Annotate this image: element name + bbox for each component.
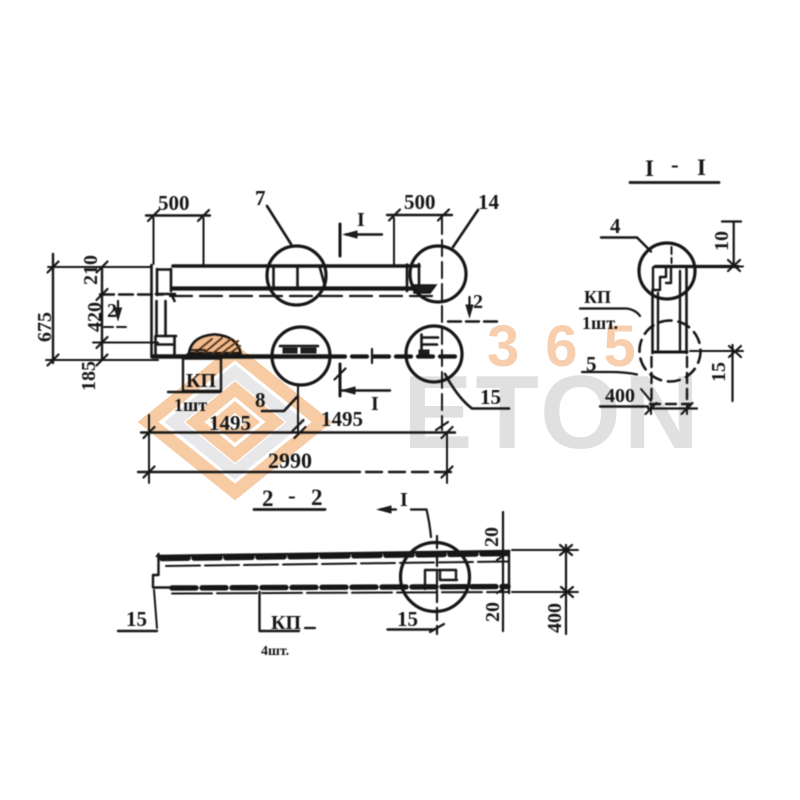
leader 14 [453, 210, 478, 247]
balloon circle slab [401, 543, 470, 612]
slab right end [508, 551, 510, 593]
dim 15 section [731, 345, 733, 401]
II center line [671, 247, 673, 263]
dim 500 left line [146, 214, 210, 216]
balloon circle 5 [640, 321, 701, 382]
svg-text:I: I [645, 156, 654, 181]
slab Z anchor detail [425, 570, 457, 589]
section I trace in slab [436, 536, 438, 634]
svg-text:КП: КП [584, 287, 611, 307]
left dim line inner [101, 267, 103, 360]
weld blob at beam end [413, 285, 436, 293]
section 2 arrow right [468, 297, 470, 312]
svg-text:I: I [400, 489, 408, 511]
section I marker bottom [339, 364, 342, 396]
beam top edge [173, 264, 419, 268]
section 2 arrow left [117, 301, 119, 315]
tick on lower bar [371, 349, 373, 363]
dim 20/20 line [502, 512, 504, 631]
left dims: ext line top [48, 266, 151, 268]
svg-text:2: 2 [473, 291, 483, 313]
watermark logo diamond rings [148, 352, 322, 492]
svg-text:15: 15 [126, 607, 147, 631]
II bottom of upper part [654, 351, 687, 354]
svg-text:-: - [288, 483, 296, 508]
svg-text:1шт.: 1шт. [582, 313, 618, 333]
left dim line 675 [52, 254, 54, 363]
svg-text:8: 8 [255, 388, 266, 412]
KP label box [183, 359, 221, 392]
svg-text:20: 20 [481, 527, 503, 547]
balloon circle 8 [272, 327, 330, 385]
svg-text:4шт.: 4шт. [261, 644, 289, 659]
balloon circle 7 [267, 246, 326, 305]
lifting loop dome [189, 335, 241, 354]
svg-text:675: 675 [34, 312, 56, 342]
svg-text:185: 185 [78, 361, 100, 391]
II profile top edge [655, 265, 738, 268]
detail 8 weld patches [283, 348, 316, 353]
slab top inner line [166, 562, 508, 567]
svg-text:400: 400 [605, 385, 635, 407]
slab bottom edge [172, 592, 508, 594]
svg-text:1шт: 1шт [174, 395, 207, 415]
section 2 trace left [100, 293, 163, 295]
svg-text:I: I [697, 155, 706, 180]
svg-text:КП: КП [271, 612, 302, 634]
svg-text:4: 4 [610, 214, 621, 238]
beam bottom edge [173, 286, 419, 290]
main dim line 1495s [141, 431, 455, 433]
dim 500 right extensions [393, 218, 395, 264]
svg-text:500: 500 [158, 191, 190, 215]
beam end plate [407, 264, 419, 291]
dome steps [187, 350, 205, 355]
lower bar solid band [153, 354, 330, 359]
II lower hidden part [652, 357, 688, 404]
KP label slab [260, 592, 300, 631]
leader 7 [267, 206, 291, 244]
extension left to dim [148, 415, 150, 483]
svg-text:14: 14 [478, 190, 500, 214]
section 2 trace right [448, 320, 498, 322]
II ext top right [690, 266, 743, 268]
II keyway notch [653, 267, 671, 290]
detail 8 plate [280, 345, 318, 348]
KP underline [168, 391, 220, 393]
svg-text:15: 15 [397, 607, 418, 631]
svg-text:I: I [357, 209, 365, 231]
dome hatch [196, 338, 240, 353]
left dims: ext line bottom [46, 359, 158, 361]
balloon circle 15 [406, 326, 462, 382]
dim 500 right line [387, 214, 452, 216]
svg-text:20: 20 [482, 602, 504, 622]
svg-text:КП: КП [186, 370, 217, 392]
dim line 2990 [138, 471, 360, 473]
svg-text:I: I [371, 393, 379, 415]
dim 10 [722, 220, 741, 222]
detail 15 weld patch [419, 350, 429, 355]
extension mid [297, 385, 299, 433]
II inner cavity [658, 271, 680, 350]
svg-text:2990: 2990 [268, 448, 312, 473]
svg-text:15: 15 [480, 385, 501, 409]
svg-text:15: 15 [708, 362, 730, 382]
left bracket top box [156, 269, 175, 301]
slab top rebar band [162, 554, 507, 559]
svg-text:420: 420 [84, 302, 106, 332]
left dims: dashes 327 [104, 326, 128, 328]
section 2 trace main [170, 295, 440, 297]
slab left end step [153, 554, 172, 588]
slab bottom rebar band [172, 587, 508, 589]
II body left edge [651, 290, 654, 353]
svg-text:1495: 1495 [321, 407, 363, 431]
dim 400 line [565, 545, 567, 634]
weld ticks in detail 7 [274, 267, 326, 289]
slab ext lines right [512, 550, 578, 592]
left dims: ext line 185 [93, 342, 158, 344]
extension right to dim [446, 432, 448, 483]
balloon circle 14 [410, 246, 466, 302]
svg-text:210: 210 [80, 255, 102, 285]
left bracket bottom box [156, 336, 177, 356]
leader 8 [262, 397, 297, 411]
detail 15 anchor E-shape [422, 335, 439, 357]
dim 500 left extensions [154, 218, 204, 264]
left bracket outer edge [150, 265, 153, 357]
svg-text:10: 10 [711, 231, 733, 251]
slab top edge [157, 551, 509, 556]
svg-text:365: 365 [487, 314, 662, 379]
left bracket stem [157, 301, 166, 336]
II right edge [685, 269, 688, 353]
svg-text:2: 2 [262, 486, 274, 511]
leader 15 bottom [445, 374, 509, 409]
balloon circle 4 [639, 243, 695, 299]
svg-text:2: 2 [107, 300, 117, 322]
svg-text:7: 7 [255, 186, 266, 210]
lower bar dashed band [330, 354, 462, 358]
svg-text:2: 2 [311, 485, 323, 510]
II ext mid right [690, 350, 743, 352]
svg-text:-: - [671, 152, 679, 177]
svg-text:400: 400 [544, 603, 566, 633]
II bottom dim [651, 405, 687, 414]
svg-text:500: 500 [404, 190, 436, 214]
